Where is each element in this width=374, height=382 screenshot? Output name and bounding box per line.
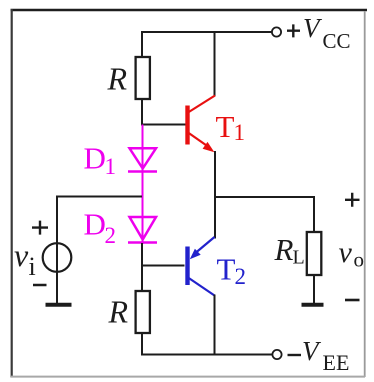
transistor T2 [188, 237, 215, 296]
wire base of T1 [141, 124, 187, 126]
svg-text:CC: CC [323, 29, 351, 53]
label + (output) [345, 193, 360, 207]
svg-text:T: T [216, 109, 235, 144]
arrow of T2 emitter [190, 249, 201, 260]
svg-text:EE: EE [323, 350, 350, 375]
wire output node to RL [214, 196, 315, 198]
resistor R (top) [136, 57, 150, 99]
terminal -Vee [272, 350, 281, 359]
wire vi vertical through source [56, 196, 58, 303]
label vi [14, 237, 36, 281]
border frame top [11, 9, 368, 12]
svg-text:v: v [339, 236, 353, 269]
wire from vi node to diode rail [56, 196, 142, 198]
label D2 [84, 207, 117, 249]
svg-text:i: i [29, 252, 36, 281]
svg-text:2: 2 [105, 223, 117, 248]
label T1 [216, 109, 246, 145]
border frame right [364, 11, 366, 377]
wire magenta diode rail [142, 125, 144, 245]
border frame left [11, 9, 13, 378]
wire right rail from top to T1 collector [214, 31, 216, 97]
wire R to bottom rail [141, 333, 143, 356]
wire RL to ground [313, 275, 315, 304]
svg-text:1: 1 [105, 154, 117, 179]
wire base of T2 [141, 265, 185, 267]
svg-text:R: R [274, 232, 294, 267]
svg-text:R: R [108, 294, 129, 330]
resistor R (bottom) [136, 291, 150, 333]
wire output node down to T2 emitter [214, 197, 216, 239]
wire left rail to R [141, 31, 143, 58]
transistor T1 [188, 96, 216, 147]
svg-text:1: 1 [234, 120, 246, 145]
label + (vi) [32, 221, 48, 235]
label vo [339, 236, 365, 272]
wire node to R (bottom) [141, 265, 143, 292]
label RL [274, 232, 305, 269]
svg-text:L: L [293, 247, 305, 269]
terminal +Vcc [272, 27, 281, 36]
ground under vi [46, 303, 72, 307]
wire bottom rail [141, 354, 272, 356]
svg-text:o: o [354, 248, 365, 272]
svg-text:D: D [84, 207, 106, 242]
label - (vi) [33, 284, 47, 287]
arrow of T1 emitter [203, 142, 215, 152]
wire T1 emitter to output node [214, 151, 216, 198]
diode D2 [128, 217, 157, 243]
diode D1 [128, 148, 157, 171]
label -Vee [288, 336, 350, 375]
svg-text:v: v [14, 237, 29, 273]
svg-text:T: T [217, 252, 236, 287]
label +Vcc [287, 13, 351, 53]
label - (output) [345, 299, 360, 302]
wire T2 collector to bottom rail [214, 295, 216, 356]
border frame bottom [11, 376, 365, 378]
label D1 [84, 141, 117, 180]
label T2 [217, 252, 247, 290]
ground under RL [302, 303, 324, 307]
svg-text:R: R [107, 61, 128, 97]
wire D2 to T2 base node [141, 243, 143, 267]
resistor RL [307, 232, 322, 275]
svg-text:2: 2 [235, 264, 247, 289]
source vi circle [43, 243, 72, 272]
wire RL branch down [313, 196, 315, 233]
wire R to base node [141, 99, 143, 126]
svg-text:D: D [84, 141, 106, 176]
wire top rail [141, 31, 272, 33]
